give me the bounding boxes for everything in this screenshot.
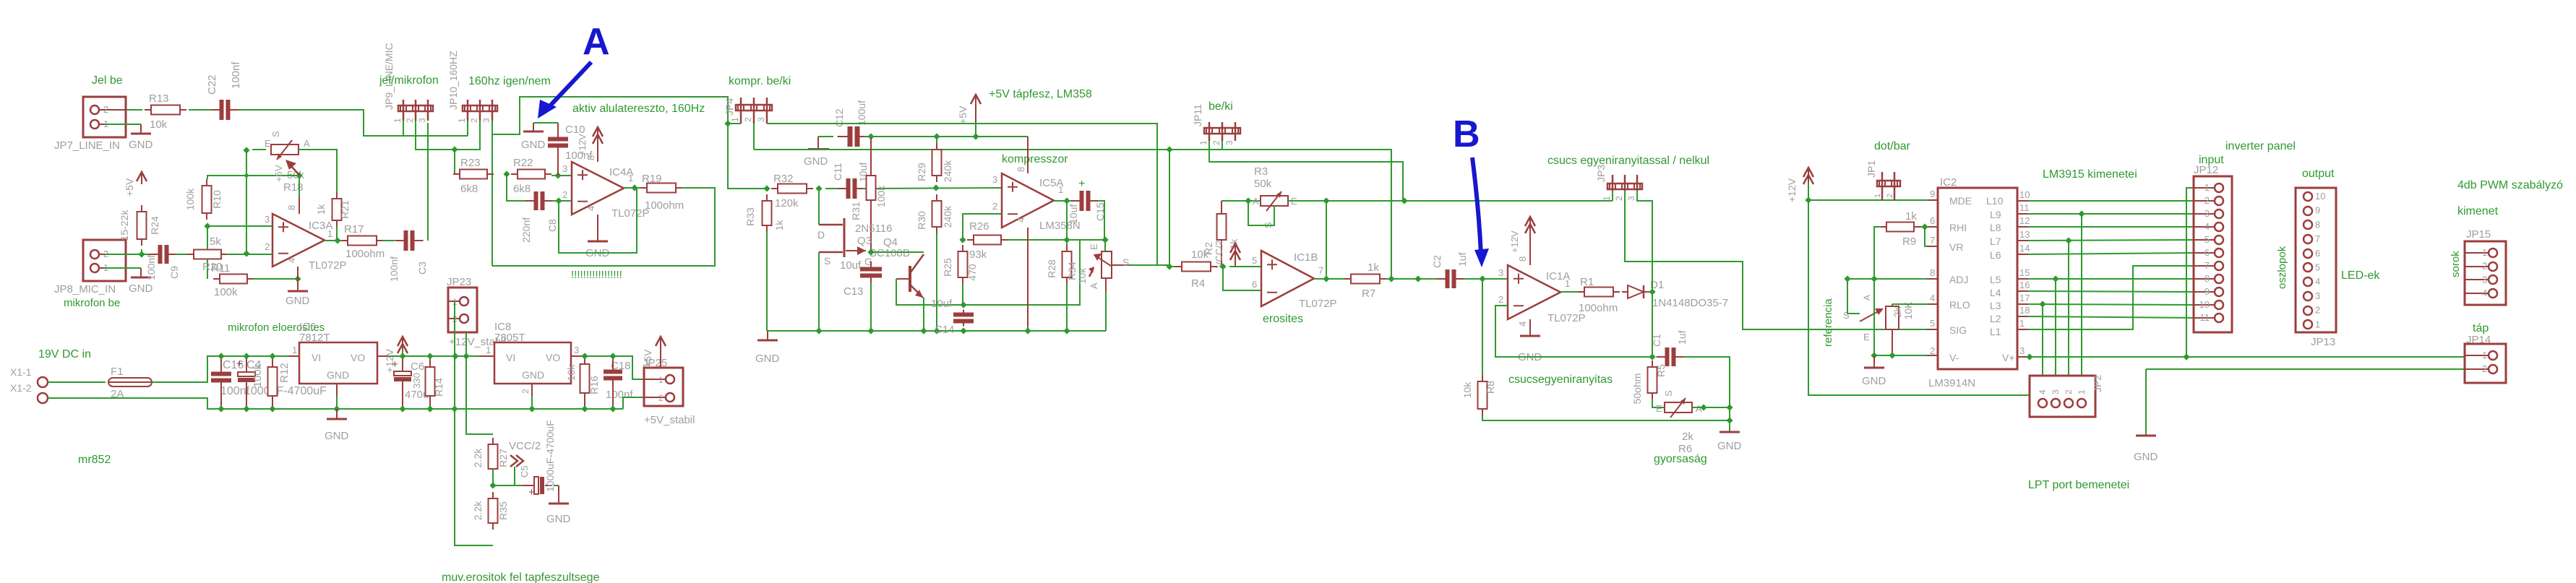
svg-text:18: 18	[2019, 305, 2030, 316]
wire ground to C12	[818, 136, 833, 137]
svg-text:8: 8	[1016, 167, 1026, 172]
svg-text:R10: R10	[211, 190, 223, 209]
wire X1-2 to ground rail	[48, 398, 623, 409]
svg-text:Jel be: Jel be	[92, 74, 123, 87]
resistor R33 1k	[766, 194, 768, 201]
jumper JP11 bypass switch	[1208, 122, 1211, 141]
wire C5 to ground	[554, 485, 559, 486]
svg-text:R14: R14	[433, 378, 445, 397]
svg-text:100nf: 100nf	[388, 256, 400, 282]
svg-text:100ohm: 100ohm	[1579, 302, 1618, 314]
svg-text:kompresszor: kompresszor	[1002, 153, 1068, 165]
svg-text:S: S	[1663, 390, 1674, 397]
svg-text:C18: C18	[611, 360, 631, 372]
svg-text:1: 1	[1565, 278, 1570, 289]
feedback wire IC1A pin2	[1495, 306, 1652, 357]
svg-text:3: 3	[2482, 274, 2487, 285]
svg-text:E: E	[1089, 243, 1099, 250]
node R24/C9 junction	[138, 251, 145, 257]
svg-text:5: 5	[1930, 318, 1935, 329]
svg-text:TL072P: TL072P	[611, 207, 650, 220]
svg-text:2k: 2k	[1892, 306, 1903, 318]
resistor R35 2.2k	[492, 492, 494, 498]
wire IC1B pin6 tied	[1223, 267, 1261, 290]
svg-text:VI: VI	[506, 352, 515, 363]
capacitor C13 10uf	[860, 267, 882, 278]
resistor R24 15-22k	[141, 205, 142, 212]
svg-text:10uf: 10uf	[1068, 204, 1079, 224]
wire C2 to IC1A pin3	[1464, 278, 1508, 280]
svg-text:240k: 240k	[942, 160, 953, 182]
svg-text:LM3914N: LM3914N	[1928, 377, 1975, 389]
svg-text:1k: 1k	[315, 204, 327, 215]
capacitor C14 10uf	[953, 313, 974, 324]
svg-text:4db PWM szabályzó: 4db PWM szabályzó	[2457, 179, 2563, 191]
svg-text:2: 2	[658, 393, 664, 403]
resistor R19 100ohm	[640, 187, 647, 189]
resistor R22 6k8	[511, 173, 518, 175]
svg-text:1: 1	[1602, 196, 1612, 201]
capacitor C11 10uf	[846, 178, 857, 199]
wire ground drop	[2145, 369, 2147, 434]
wire pot R3 wiper loop to A side	[1248, 201, 1274, 225]
wire D1 node down to C1 row	[1652, 292, 1653, 357]
svg-text:1: 1	[392, 118, 403, 123]
wire JP7 pin2 to R13 to C22 to JP9/JP10 pin1 net	[105, 109, 142, 111]
wires LM3914 outputs to JP12 lower pins	[2028, 278, 2197, 280]
svg-text:R24: R24	[149, 216, 160, 235]
IC8 GND pin to rail	[531, 384, 533, 396]
referencia wiper arrow	[1860, 309, 1882, 321]
wire R18 A to R21 top	[299, 150, 337, 194]
resistor R32 120k	[771, 188, 778, 189]
svg-text:E: E	[1863, 332, 1870, 342]
op-amp IC1B TL072P	[1261, 251, 1314, 306]
svg-text:50k: 50k	[1254, 178, 1272, 190]
svg-text:erosites: erosites	[1263, 313, 1303, 325]
svg-text:JP7_LINE_IN: JP7_LINE_IN	[54, 139, 120, 152]
svg-text:+5V tápfesz, LM358: +5V tápfesz, LM358	[989, 88, 1092, 100]
wire GND rail to JP14 pin2	[2146, 368, 2465, 370]
svg-text:100ohm: 100ohm	[645, 199, 684, 212]
ground at JP7	[140, 124, 142, 134]
node R29/R30	[932, 184, 939, 191]
node +12V to MDE	[1805, 197, 1811, 203]
supply +12V arrow at IC4A pin8	[597, 142, 598, 162]
trimmer R18 50k	[252, 149, 266, 150]
long rail from JP4 pin2 region to be/ki area	[754, 149, 1169, 150]
svg-text:csucsegyeniranyitas: csucsegyeniranyitas	[1508, 373, 1613, 386]
svg-text:R35: R35	[497, 501, 509, 520]
svg-text:1: 1	[1198, 140, 1208, 145]
wire C13 bottom to ground rail	[870, 283, 872, 331]
svg-text:1: 1	[486, 345, 491, 355]
svg-text:10k: 10k	[150, 118, 168, 131]
resistor R29 240k	[936, 137, 937, 147]
pin4 stub	[297, 267, 299, 282]
wire C9 to R20	[176, 254, 188, 255]
wire pot R34 bottom to ground rail	[1105, 278, 1107, 292]
wire X1-1 to fuse	[48, 381, 106, 383]
wire JP9 pin2 and JP10 pin2 to R23 node	[416, 121, 480, 150]
svg-text:C11: C11	[832, 163, 843, 181]
resistor R4 10k	[1166, 263, 1172, 269]
svg-text:JP23: JP23	[447, 276, 471, 288]
svg-text:8: 8	[1930, 267, 1935, 278]
svg-text:2: 2	[103, 104, 108, 115]
svg-text:1: 1	[327, 228, 332, 239]
IC5A pin4 stub to ground rail	[1027, 228, 1029, 327]
ground at IC1A pin4	[1529, 319, 1531, 334]
svg-text:10uf: 10uf	[931, 298, 953, 310]
svg-text:8: 8	[286, 205, 297, 210]
svg-text:kompr. be/ki: kompr. be/ki	[729, 75, 791, 87]
ground above C10	[533, 123, 534, 131]
IC5A pin8 stub to +5V rail	[1027, 137, 1029, 173]
svg-text:10k: 10k	[1461, 381, 1473, 399]
svg-text:JP10_160HZ: JP10_160HZ	[447, 51, 459, 110]
wire Q4 base to C14 row and up to R26 row	[896, 240, 1080, 305]
svg-text:VO: VO	[351, 352, 365, 363]
supply +5V arrow above R24	[141, 172, 142, 184]
svg-text:A: A	[1089, 282, 1099, 289]
wire R5 bottom to pot R6 E	[1652, 400, 1665, 407]
+5V rail out of IC8	[583, 355, 632, 357]
IC2 right pin stubs	[2017, 200, 2028, 202]
svg-text:GND: GND	[755, 353, 780, 365]
node R32 right	[815, 185, 822, 191]
wire JP8 pin2 signal row	[105, 254, 151, 255]
svg-text:GND: GND	[129, 282, 153, 295]
svg-text:R9: R9	[1902, 236, 1916, 248]
wire JP23 pin1 down to ground rail and R35	[454, 301, 455, 409]
jumper JP9 LINE/MIC select	[403, 100, 405, 121]
svg-text:7: 7	[1318, 265, 1323, 276]
wire JP10 pin3 to top net toward JP4	[492, 97, 728, 134]
wire C15 right down to R26 row	[1098, 201, 1104, 240]
capacitor C22 100nf	[220, 100, 231, 120]
wire C8 branch from R23/R22 node	[507, 174, 526, 201]
node R4 right / IC1B pin5	[1219, 263, 1226, 269]
svg-text:S: S	[1122, 256, 1129, 268]
svg-text:F1: F1	[111, 366, 124, 378]
svg-text:L8: L8	[1990, 222, 2001, 233]
wire JP11 pin2 to direct row	[1222, 141, 1223, 150]
svg-text:VI: VI	[312, 352, 321, 363]
svg-text:RHI: RHI	[1949, 222, 1967, 233]
svg-text:100k: 100k	[214, 286, 238, 298]
svg-text:R29: R29	[916, 163, 927, 181]
svg-text:mr852: mr852	[78, 454, 111, 466]
wire Q3 source to ground rail	[818, 252, 820, 331]
wire JP3 pin3 to D1 node	[1637, 191, 1652, 292]
svg-text:11: 11	[2200, 312, 2210, 323]
svg-text:1: 1	[628, 173, 633, 183]
node D1 cathode	[1649, 288, 1655, 295]
svg-text:10: 10	[2199, 299, 2210, 310]
diode D1 1N4148DO35-7	[1622, 291, 1628, 293]
wire IC6 VO to +12V rail	[389, 356, 644, 379]
svg-text:1uf: 1uf	[1456, 252, 1468, 267]
svg-text:100nf: 100nf	[230, 61, 242, 89]
svg-text:7: 7	[2315, 233, 2320, 244]
svg-text:120k: 120k	[775, 197, 799, 210]
svg-text:R26: R26	[969, 220, 989, 233]
svg-text:4: 4	[1016, 217, 1026, 223]
resistor R25 470	[962, 245, 963, 251]
top wire from C10 region to switch column	[767, 124, 1157, 265]
wire JP8 pin1 to ground	[105, 267, 141, 269]
svg-text:E: E	[265, 138, 271, 149]
wire IC5A pin2 to R26 node	[963, 214, 1002, 240]
svg-text:JP12: JP12	[2194, 164, 2218, 176]
wire C1 to gyorsasag node	[1683, 357, 1730, 431]
capacitor C2 1uf	[1446, 269, 1456, 288]
capacitor C4 1000uF-4700uF	[243, 353, 249, 359]
svg-text:4: 4	[2204, 221, 2210, 232]
svg-text:dot/bar: dot/bar	[1874, 140, 1910, 152]
node C14 top	[960, 301, 966, 308]
svg-text:19V DC in: 19V DC in	[38, 348, 91, 360]
svg-text:TL072P: TL072P	[309, 259, 347, 272]
svg-text:2: 2	[2482, 261, 2487, 272]
capacitor C3 100nf	[404, 230, 415, 251]
red pin leads in power section	[220, 359, 222, 371]
svg-text:GND: GND	[285, 295, 310, 307]
supply +12V arrow for LM3914	[1808, 168, 1809, 182]
wire V- row to ground	[1874, 355, 1927, 356]
svg-text:14: 14	[2019, 243, 2030, 254]
wire R9 right to RHI and VR	[1920, 226, 1927, 228]
svg-text:330: 330	[411, 373, 422, 389]
jumper JP1 mode select	[1881, 172, 1884, 200]
wire ADJ row	[1847, 278, 1927, 280]
resistor R16 10k	[581, 353, 588, 359]
resistor R21 1k	[336, 192, 338, 199]
terminal X1-1	[38, 377, 48, 387]
svg-text:csucs egyeniranyitassal / nelk: csucs egyeniranyitassal / nelkul	[1547, 155, 1709, 167]
svg-text:GND: GND	[521, 139, 546, 151]
svg-text:R25: R25	[942, 258, 953, 277]
wire R9 left down to ADJ node	[1874, 227, 1881, 279]
svg-text:6: 6	[2204, 247, 2210, 258]
svg-text:+: +	[528, 486, 535, 498]
svg-text:100nf: 100nf	[145, 255, 157, 280]
trimmer referencia 2k/10K	[1886, 306, 1899, 329]
wire IC1A output to R1	[1560, 291, 1579, 293]
svg-text:+12V: +12V	[1509, 230, 1520, 253]
ground at IC4A pin4	[597, 215, 598, 238]
capacitor C1 1uf	[1665, 347, 1676, 366]
resistor R8 10k from pin3 node to ground	[1482, 279, 1483, 375]
svg-text:6: 6	[1252, 279, 1257, 290]
wire C3 up to JP9 pin3	[427, 123, 429, 241]
svg-text:1: 1	[2315, 319, 2320, 329]
svg-text:+: +	[1078, 178, 1085, 190]
wire Q4 emitter to ground rail	[923, 298, 924, 331]
svg-text:GND: GND	[327, 369, 349, 381]
svg-text:1: 1	[2482, 247, 2487, 258]
supply +12V arrow at IC1B pin5	[1235, 243, 1236, 256]
supply +12V arrow on rail	[402, 337, 403, 350]
svg-text:R19: R19	[642, 173, 662, 185]
svg-text:!!!!!!!!!!!!!!!!!: !!!!!!!!!!!!!!!!!	[571, 269, 622, 281]
svg-text:C1: C1	[1651, 334, 1662, 347]
signal row C11 to IC5A pin3	[863, 188, 1002, 189]
ground at C5	[558, 485, 559, 504]
wire R7 to C2	[1386, 278, 1437, 280]
svg-text:ADJ: ADJ	[1949, 274, 1968, 285]
svg-text:LM3915 kimenetei: LM3915 kimenetei	[2043, 168, 2137, 181]
capacitor C12 100uf	[848, 126, 860, 147]
wire JP4 pin2 down to lower rail	[753, 124, 755, 150]
svg-text:R21: R21	[339, 200, 351, 219]
svg-text:R27: R27	[497, 449, 509, 467]
svg-text:4: 4	[2038, 389, 2048, 394]
svg-text:93k: 93k	[969, 249, 987, 261]
svg-text:gyorsaság: gyorsaság	[1654, 453, 1707, 465]
svg-text:JP3: JP3	[1595, 165, 1607, 182]
svg-text:C12: C12	[833, 108, 845, 127]
capacitor C16 100nf	[218, 353, 224, 359]
svg-text:1uf: 1uf	[1676, 330, 1688, 345]
svg-text:oszlopok: oszlopok	[2276, 246, 2288, 289]
wire JP3 pin1 to audio row end	[1612, 191, 1613, 201]
svg-text:3: 3	[2019, 345, 2025, 356]
wire IC5A output	[1054, 200, 1074, 202]
svg-text:3: 3	[1498, 267, 1503, 278]
svg-text:10k: 10k	[1191, 249, 1209, 261]
svg-text:JP11: JP11	[1192, 104, 1203, 126]
wire JP11 pin1 to audio row	[1209, 141, 1403, 201]
svg-text:A: A	[304, 138, 310, 149]
svg-text:GND: GND	[1862, 375, 1886, 387]
svg-text:1: 1	[1873, 194, 1882, 198]
gate node junction	[867, 249, 874, 255]
svg-text:2: 2	[562, 189, 567, 200]
connector JP12 inverter input	[2194, 176, 2232, 332]
svg-text:R32: R32	[773, 173, 794, 185]
svg-text:C9: C9	[168, 266, 180, 279]
resistor R13 10k	[145, 109, 151, 111]
svg-text:2: 2	[1930, 345, 1935, 356]
wire R10 to IC3A pin3 row	[207, 225, 272, 227]
svg-text:6k8: 6k8	[460, 183, 478, 195]
capacitor C5 1000uF-4700uF	[523, 485, 533, 486]
svg-text:3: 3	[2051, 389, 2061, 394]
svg-text:1k: 1k	[1905, 210, 1917, 223]
svg-text:100uf: 100uf	[856, 100, 867, 126]
wire JP4 pin1 node down to R32 row	[728, 124, 767, 189]
supply +5V diagonal arrow at IC3A pin8	[290, 165, 299, 175]
svg-text:4: 4	[2482, 288, 2487, 298]
ground at JP8	[140, 268, 142, 277]
wire JP23 pin2 to +12V rail and R27	[466, 332, 493, 434]
svg-text:2: 2	[992, 201, 997, 212]
wire R21 bottom to output node	[336, 227, 338, 241]
svg-text:9: 9	[2315, 205, 2320, 216]
svg-text:4: 4	[585, 206, 596, 211]
svg-text:C8: C8	[546, 219, 558, 232]
svg-text:B: B	[1453, 113, 1480, 155]
svg-text:3: 3	[265, 214, 270, 225]
svg-text:táp: táp	[2473, 322, 2489, 334]
svg-text:12: 12	[2019, 215, 2030, 226]
svg-text:JP4: JP4	[724, 98, 735, 116]
supply +5V arrow feeding rail	[975, 95, 976, 124]
resistor R17 100ohm	[341, 240, 348, 241]
svg-text:50ohm: 50ohm	[1631, 373, 1643, 405]
svg-text:R28: R28	[1046, 259, 1057, 278]
IC6 GND pin to rail	[336, 384, 338, 396]
svg-text:7: 7	[2204, 260, 2210, 271]
svg-text:1: 1	[658, 375, 664, 385]
svg-text:470: 470	[966, 264, 978, 281]
svg-text:L10: L10	[1986, 195, 2004, 207]
resistor R11 100k feedback to ground	[213, 278, 220, 280]
wire gate node to Q4 collector	[871, 251, 924, 253]
svg-text:C14: C14	[935, 324, 955, 336]
wire pot R34 wiper to R4 row	[1128, 264, 1157, 266]
wire +12V node down to LPT row	[1808, 200, 2030, 395]
svg-text:+5V: +5V	[642, 349, 653, 368]
svg-text:R5: R5	[1655, 364, 1667, 377]
svg-text:3: 3	[992, 174, 997, 185]
svg-text:JP15: JP15	[2466, 228, 2491, 241]
connector JP13 inverter output	[2296, 188, 2336, 332]
svg-text:E: E	[1656, 403, 1662, 414]
wire C10 top to ground flag	[533, 122, 558, 124]
svg-text:LPT port bemenetei: LPT port bemenetei	[2028, 479, 2129, 491]
op-amp IC4A TL072P	[572, 162, 624, 215]
svg-text:S: S	[270, 131, 281, 137]
resistor R9 1k	[1880, 226, 1886, 228]
node R23/R22/C8 junction	[503, 170, 510, 177]
resistor R10 100k	[206, 179, 207, 186]
vertical wires from bus to JP2	[2081, 214, 2082, 399]
svg-text:100ohm: 100ohm	[345, 248, 385, 260]
svg-text:L3: L3	[1990, 300, 2001, 311]
svg-text:GND: GND	[522, 369, 544, 381]
svg-text:9: 9	[2204, 286, 2210, 297]
svg-text:be/ki: be/ki	[1208, 100, 1233, 113]
svg-text:100nf: 100nf	[606, 389, 633, 401]
ground under gyorsasag	[1729, 431, 1730, 432]
wire V+ long rail to JP14 pin1	[2028, 356, 2465, 358]
svg-text:VR: VR	[1949, 241, 1963, 253]
svg-text:V+: V+	[2002, 352, 2015, 363]
svg-text:A: A	[1862, 295, 1872, 301]
trimmer R6 2k	[1665, 402, 1692, 413]
svg-text:Q3: Q3	[857, 235, 872, 247]
svg-text:3: 3	[2204, 208, 2210, 219]
svg-text:15: 15	[2019, 267, 2030, 278]
svg-text:2: 2	[1886, 194, 1894, 198]
svg-text:240k: 240k	[942, 205, 953, 228]
outer loop R19 to JP10 pin3	[492, 188, 715, 266]
capacitor C8 220nf	[534, 191, 545, 210]
svg-text:1000uF-4700uF: 1000uF-4700uF	[544, 420, 556, 492]
svg-text:JP1: JP1	[1866, 160, 1877, 178]
svg-text:6k8: 6k8	[513, 183, 531, 195]
svg-text:1: 1	[2077, 389, 2087, 394]
wire R20 to IC3A pin2	[227, 254, 272, 255]
svg-text:3: 3	[1626, 196, 1636, 201]
svg-text:referencia: referencia	[1822, 298, 1834, 347]
svg-text:R3: R3	[1254, 165, 1268, 178]
svg-text:10: 10	[2315, 191, 2325, 202]
svg-text:L6: L6	[1990, 249, 2001, 261]
